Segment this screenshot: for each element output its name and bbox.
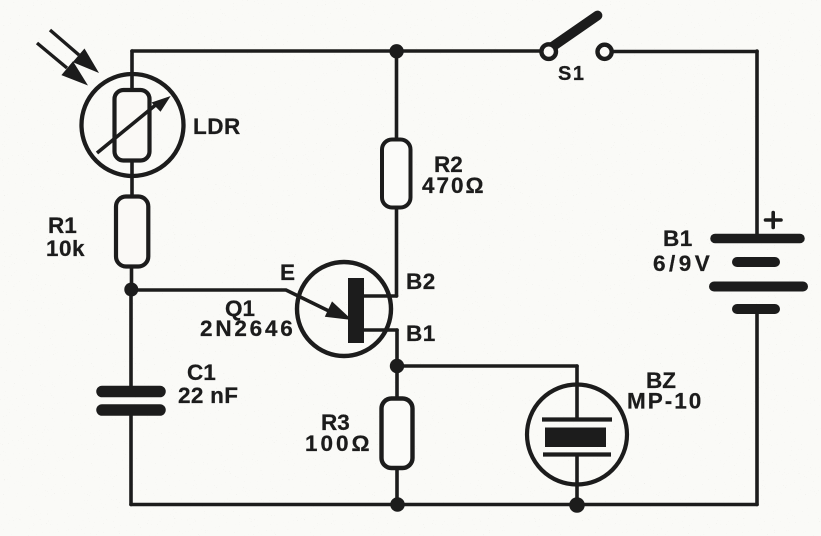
wire B2 horizontal <box>363 294 397 298</box>
wire node B to R3 <box>395 366 399 400</box>
node junction R3 bottom rail <box>390 497 405 512</box>
wire node B to buzzer <box>397 364 577 368</box>
capacitor C1 <box>102 392 160 411</box>
battery B1 <box>714 239 803 310</box>
svg-text:6/9V: 6/9V <box>653 251 713 276</box>
wire buzzer top lead <box>575 366 579 419</box>
wire B1 horizontal <box>363 328 397 332</box>
wire right rail lower <box>755 312 759 505</box>
svg-text:100Ω: 100Ω <box>305 431 373 456</box>
node junction BZ bottom rail <box>569 497 585 513</box>
transistor Q1 (UJT 2N2646) <box>297 262 391 356</box>
switch S1 <box>541 16 611 59</box>
svg-text:E: E <box>280 260 295 285</box>
node junction top (R2 to top rail) <box>389 44 403 58</box>
svg-text:10k: 10k <box>46 236 85 261</box>
light arrow 2 <box>37 43 88 86</box>
battery plus sign <box>766 213 782 228</box>
wire right rail upper <box>755 51 759 235</box>
svg-text:S1: S1 <box>558 63 585 85</box>
resistor R2 <box>382 140 411 208</box>
wire R2 bottom lead to B2 <box>395 206 399 296</box>
resistor R1 <box>116 197 148 267</box>
svg-text:LDR: LDR <box>193 114 241 139</box>
wire R1 to node A <box>130 265 134 290</box>
svg-text:R1: R1 <box>48 213 77 238</box>
svg-text:B1: B1 <box>406 321 436 346</box>
svg-text:22 nF: 22 nF <box>178 383 238 408</box>
light arrow 1 <box>50 30 99 73</box>
wire R3 to bottom rail <box>395 466 399 505</box>
wire LDR to R1 <box>130 159 134 198</box>
svg-text:B2: B2 <box>406 269 436 294</box>
svg-text:470Ω: 470Ω <box>422 173 486 198</box>
node B junction (B1/R3/BZ) <box>390 359 404 373</box>
wire top rail left <box>132 49 542 53</box>
buzzer BZ <box>527 385 627 485</box>
node A junction (R1/C1/E) <box>124 283 138 297</box>
wire buzzer bottom lead <box>575 455 579 505</box>
wire B1 vertical <box>395 330 399 366</box>
wire emitter <box>131 290 335 314</box>
wire LDR top lead <box>130 51 134 90</box>
wire bottom rail <box>131 503 757 507</box>
wire top rail right <box>614 50 758 54</box>
wire R2 top lead <box>395 51 399 141</box>
svg-text:B1: B1 <box>663 226 693 251</box>
svg-text:MP-10: MP-10 <box>627 389 703 414</box>
photoresistor LDR <box>82 74 184 176</box>
wire node A to C1 <box>129 290 133 388</box>
wire C1 to bottom rail <box>129 413 133 505</box>
svg-text:2N2646: 2N2646 <box>200 316 296 341</box>
svg-text:C1: C1 <box>187 360 216 385</box>
resistor R3 <box>382 399 413 469</box>
